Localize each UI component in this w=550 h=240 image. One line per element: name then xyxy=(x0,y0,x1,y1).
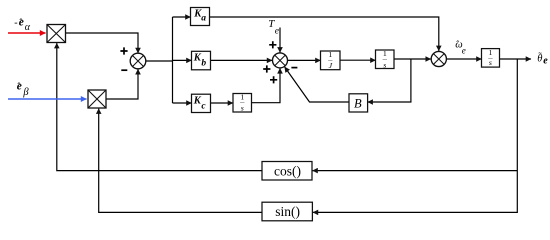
svg-text:b: b xyxy=(201,59,206,69)
svg-text:˜: ˜ xyxy=(538,51,542,62)
svg-text:e: e xyxy=(275,26,279,36)
svg-text:e: e xyxy=(462,46,466,56)
svg-text:a: a xyxy=(201,14,206,24)
svg-text:J: J xyxy=(329,61,333,70)
svg-text:1: 1 xyxy=(488,48,492,57)
svg-text:s: s xyxy=(241,104,244,113)
svg-text:-: - xyxy=(14,18,17,29)
svg-text:B: B xyxy=(354,96,362,110)
svg-text:ˆ: ˆ xyxy=(456,39,459,49)
svg-text:cos(): cos() xyxy=(274,164,301,179)
svg-text:s: s xyxy=(383,60,386,69)
svg-text:β: β xyxy=(22,87,29,98)
svg-text:s: s xyxy=(489,58,492,67)
svg-text:1: 1 xyxy=(240,93,244,102)
svg-text:1: 1 xyxy=(328,50,332,59)
svg-text:e: e xyxy=(543,56,548,67)
svg-text:α: α xyxy=(25,22,31,33)
svg-text:sin(): sin() xyxy=(275,204,300,219)
svg-text:1: 1 xyxy=(383,49,387,58)
